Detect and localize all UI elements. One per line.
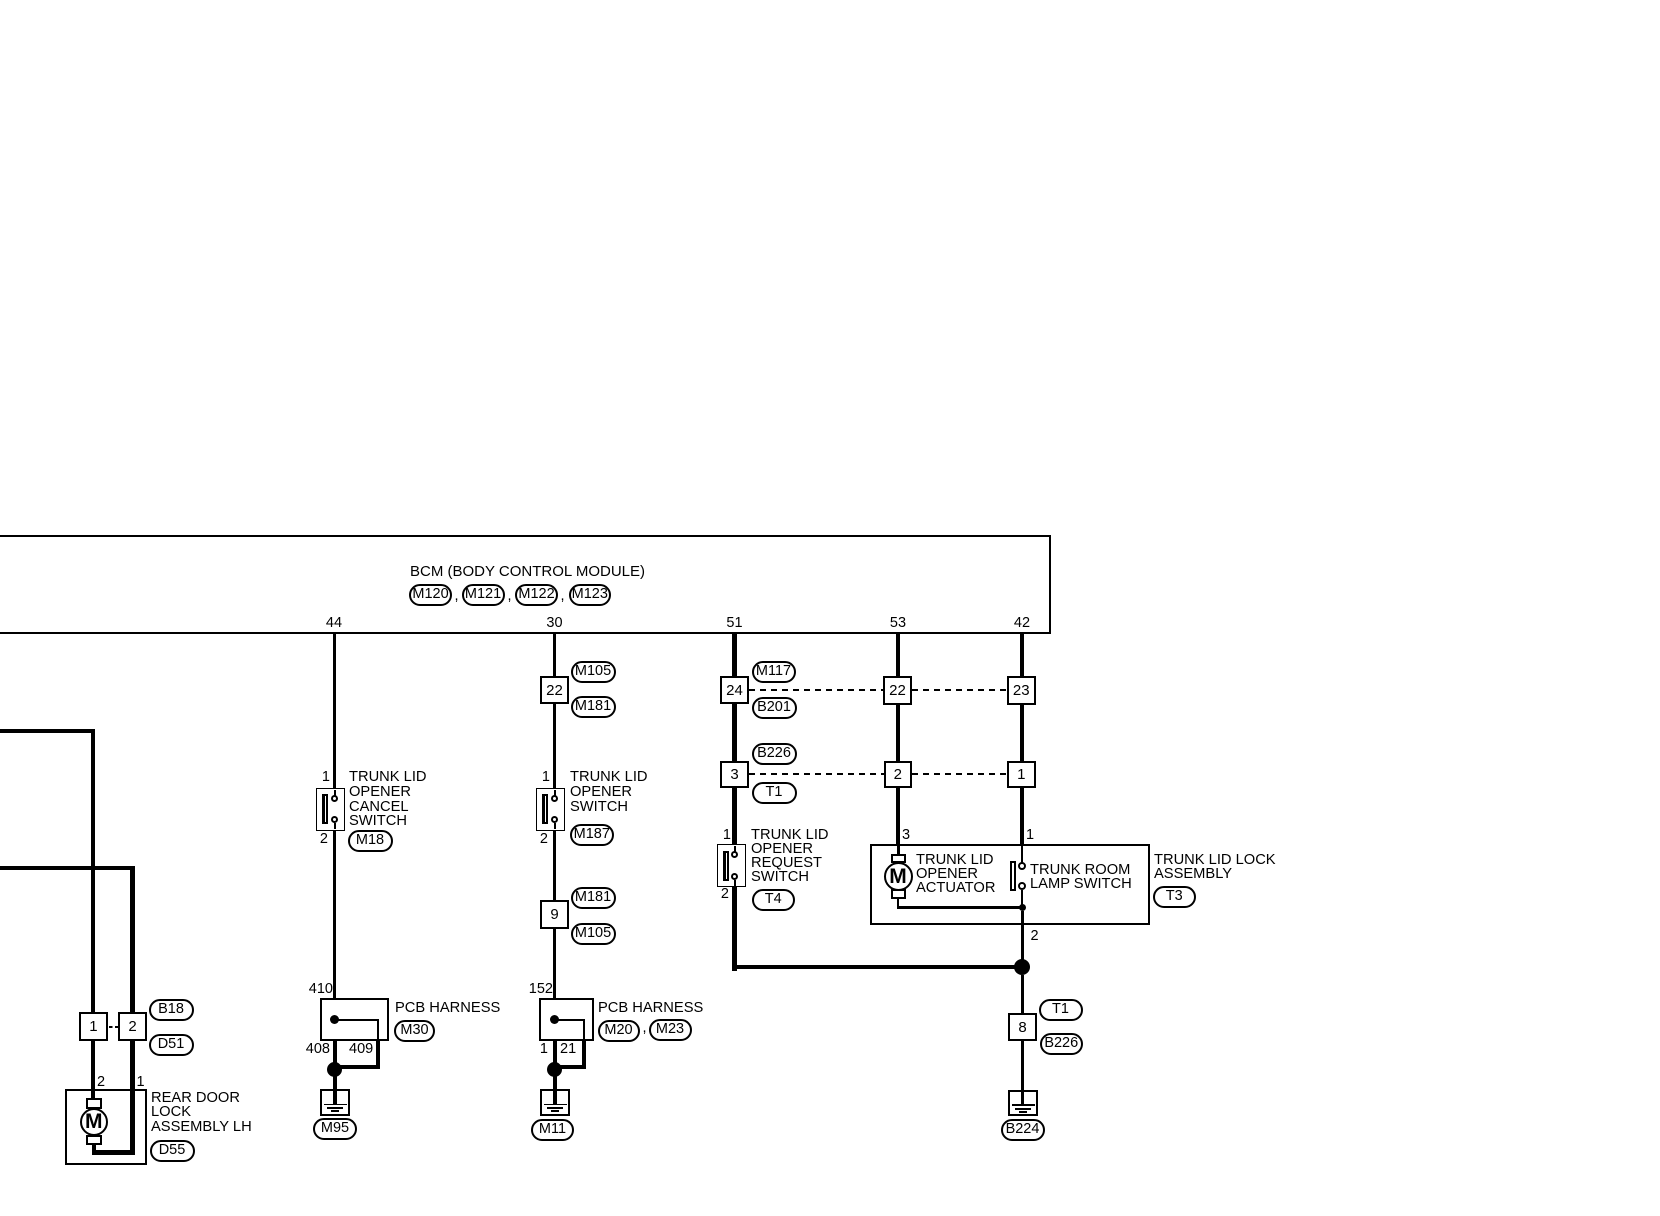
connector M105 (571, 661, 616, 683)
PCB harness label right (598, 1001, 703, 1016)
trunk lid lock assembly box T3 (870, 844, 1150, 925)
cancel switch name label (349, 770, 427, 829)
wire cancel switch to PCB harness (333, 830, 337, 999)
pin 44 label (322, 617, 346, 630)
ground symbol M95 (320, 1089, 350, 1116)
connector B18 (149, 999, 194, 1021)
pin 1 label opener switch (538, 771, 550, 784)
request switch name label (751, 828, 829, 884)
pin 1 label rear door lock (137, 1076, 145, 1089)
connector M23 (649, 1019, 692, 1041)
junction dot above ground M11 (547, 1062, 562, 1077)
pin 152 label (527, 983, 553, 996)
connector M105 lower (571, 923, 616, 945)
pin 42 label (1010, 617, 1034, 630)
ground connector M11 (531, 1119, 574, 1141)
pin 409 label (349, 1043, 373, 1056)
connector M122 (515, 584, 558, 606)
connector pin 23 box (1007, 676, 1037, 705)
dashed link 3 to 2 (749, 773, 884, 775)
wire junction to connector 8 (1021, 975, 1024, 1013)
connector M120 (409, 584, 452, 606)
wire connector 22 to connector 2 (896, 704, 900, 762)
dashed link 24 to 22 (749, 689, 883, 691)
wire assembly pin 2 to junction (1021, 925, 1024, 961)
connector pin 22 box right (883, 676, 912, 705)
wire BCM pin 42 to connector 23 (1020, 634, 1024, 677)
connector M181 lower (571, 887, 616, 909)
assembly name label (1154, 853, 1276, 881)
trunk lid opener switch M187 (536, 788, 565, 831)
connector pin 2 box left (118, 1012, 146, 1041)
connector pin 22 box (540, 676, 569, 704)
wire BCM pin 44 to cancel switch (333, 634, 337, 789)
pin 1 label PCB (536, 1043, 548, 1056)
wire from left harness lower (0, 866, 135, 870)
pin 2 label assembly (1031, 930, 1039, 943)
connector T1 lower (1039, 999, 1083, 1021)
connector pin 1 box left (79, 1012, 108, 1041)
wire BCM pin 51 to connector 24 (732, 634, 736, 678)
connector pin 9 box (540, 900, 569, 929)
wire junction to ground M95 (333, 1076, 337, 1090)
wire connector 3 to request switch (732, 787, 736, 844)
wire connector 23 to connector 1 (1020, 704, 1024, 762)
pin 1 label lamp switch (1026, 829, 1038, 842)
junction dot in lock assembly (1019, 904, 1026, 911)
junction dot in PCB harness M30 (330, 1015, 339, 1024)
wire connector 22 to opener switch (553, 704, 557, 788)
pin 1 label request switch (719, 829, 731, 842)
trunk room lamp switch (1010, 861, 1016, 891)
wire actuator motor to junction (897, 899, 900, 908)
connector pin 3 box (720, 761, 749, 789)
pin 30 label (543, 617, 567, 630)
pin 410 label (303, 983, 333, 996)
connector B226 lower (1040, 1033, 1084, 1055)
trunk lid opener request switch T4 (717, 844, 746, 887)
wire junction to assembly pin 2 (1021, 911, 1024, 925)
connector pin 24 box (720, 676, 749, 704)
wire BCM pin 53 to connector 22 right (896, 634, 900, 677)
wire connector 9 to PCB harness (553, 929, 557, 999)
wire lock motor to pin 1 elbow (92, 1145, 96, 1155)
wire down to connector 2 left (130, 866, 134, 1013)
connector M187 (570, 824, 614, 846)
connector M30 (394, 1020, 435, 1042)
PCB harness box M20 M23 (539, 998, 594, 1041)
pin 3 label actuator (902, 829, 910, 842)
rear door lock name label (151, 1091, 252, 1134)
connector D51 (149, 1034, 194, 1056)
dashed link 2 to 1 (912, 773, 1007, 775)
opener switch name label (570, 770, 648, 814)
ground connector M95 (313, 1118, 357, 1140)
connector M181 (571, 696, 616, 718)
connector pin 8 box (1008, 1013, 1037, 1041)
wire pin 1 to trunk room lamp switch (1021, 846, 1024, 863)
trunk lid opener cancel switch M18 (316, 788, 345, 831)
junction dot above ground M95 (327, 1062, 342, 1077)
pin 51 label (723, 617, 747, 630)
connector M117 (752, 661, 796, 683)
wire connector 1 to trunk lid lock assembly pin 1 (1020, 788, 1024, 845)
dashed link 22 to 23 (912, 689, 1007, 691)
BCM (Body Control Module) box (0, 535, 1051, 537)
connector M20 (598, 1020, 640, 1042)
dashed link 1 to 2 left (109, 1026, 118, 1028)
wire pin 2 to lock motor (91, 1089, 95, 1099)
wire junction to ground M11 (553, 1076, 557, 1090)
connector pin 2 box (884, 761, 913, 789)
connector M123 (569, 584, 612, 606)
pin 1 label cancel switch (318, 771, 330, 784)
pin 2 label request switch (717, 888, 729, 901)
wire pin 3 to opener actuator motor (897, 846, 900, 855)
connector B226 (752, 743, 797, 765)
junction dot in PCB harness M20 (550, 1015, 559, 1024)
wire connector 2 to rear door lock pin 1 (130, 1041, 134, 1089)
actuator name label (916, 853, 995, 895)
ground symbol B224 (1008, 1090, 1038, 1116)
connector T3 (1153, 886, 1197, 908)
lamp switch name label (1030, 863, 1132, 891)
PCB harness label (395, 1001, 500, 1016)
trunk lid opener actuator motor M (891, 854, 906, 863)
wire 408 from PCB harness to ground junction (333, 1041, 337, 1069)
wire 409 elbow from PCB harness (376, 1041, 380, 1069)
wire BCM pin 30 to connector 22 (553, 634, 557, 676)
rear door lock assembly box D55 (65, 1089, 147, 1165)
wire request switch down (732, 887, 736, 972)
connector B201 (752, 697, 797, 719)
wire lamp switch to junction (1021, 890, 1024, 905)
wire 1 from PCB harness to ground junction (553, 1041, 557, 1069)
PCB harness box M30 (320, 998, 389, 1041)
ground connector B224 (1001, 1119, 1045, 1141)
connector T4 (752, 889, 796, 911)
connector T1 (752, 782, 797, 804)
pin 53 label (886, 617, 910, 630)
rear door lock motor M (86, 1098, 102, 1109)
connector D55 (150, 1140, 195, 1162)
wire horizontal to junction below T3 (732, 965, 1022, 969)
wire connector 2 to trunk lid lock assembly pin 3 (896, 788, 900, 845)
wire connector 1 to rear door lock pin 2 (91, 1041, 95, 1089)
connector pin 1 box (1007, 761, 1037, 789)
pin 2 label rear door lock (97, 1076, 105, 1089)
pin 408 label (302, 1043, 330, 1056)
ground symbol M11 (540, 1089, 570, 1116)
connector M18 (348, 830, 393, 852)
connector M121 (462, 584, 505, 606)
wire opener switch to connector 9 (553, 830, 557, 900)
pin 2 label cancel switch (316, 833, 328, 846)
wire connector 8 to ground B224 (1021, 1041, 1024, 1090)
wire 21 elbow from PCB harness (582, 1041, 586, 1069)
pin 21 label PCB (560, 1043, 576, 1056)
junction dot main (1014, 959, 1030, 975)
wire down to connector 1 left (91, 729, 95, 1013)
wire from left harness upper (0, 729, 95, 733)
BCM title label (410, 564, 645, 579)
pin 2 label opener switch (536, 833, 548, 846)
wire connector 24 to connector 3 (732, 704, 736, 761)
